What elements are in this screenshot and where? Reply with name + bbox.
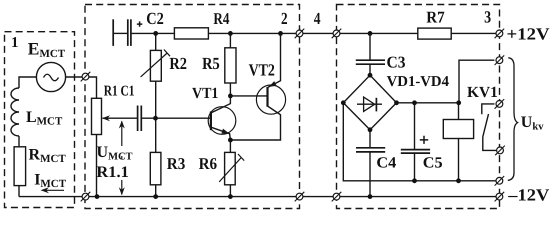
svg-text:R2: R2 <box>169 54 187 73</box>
svg-text:VT1: VT1 <box>192 85 218 102</box>
svg-text:C3: C3 <box>387 53 406 72</box>
svg-text:R1.1: R1.1 <box>96 164 128 181</box>
svg-text:R5: R5 <box>202 54 220 73</box>
svg-text:R1 C1: R1 C1 <box>104 84 135 100</box>
svg-text:2: 2 <box>281 9 288 28</box>
svg-text:VD1-VD4: VD1-VD4 <box>387 74 450 90</box>
svg-text:C4: C4 <box>376 155 396 172</box>
svg-text:C2: C2 <box>146 9 164 28</box>
svg-text:R7: R7 <box>426 8 444 27</box>
svg-text:C5: C5 <box>423 155 443 172</box>
svg-text:–12V: –12V <box>507 186 550 205</box>
svg-text:3: 3 <box>484 8 491 27</box>
svg-text:R6: R6 <box>199 154 218 173</box>
svg-text:R3: R3 <box>167 154 186 173</box>
svg-text:+12V: +12V <box>507 25 550 44</box>
svg-text:4: 4 <box>314 9 321 28</box>
svg-text:1: 1 <box>11 35 19 51</box>
svg-text:R4: R4 <box>213 9 229 28</box>
svg-text:KV1: KV1 <box>467 84 498 101</box>
svg-text:VT2: VT2 <box>249 60 275 79</box>
